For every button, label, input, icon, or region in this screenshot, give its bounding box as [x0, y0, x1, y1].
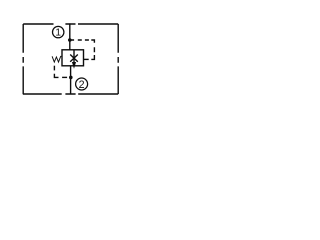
- background: [0, 0, 140, 110]
- junction node B dot: [69, 76, 73, 80]
- circled port label 1: [53, 26, 64, 37]
- svg-text:2: 2: [79, 79, 85, 91]
- port 1 line: [69, 23, 71, 50]
- valve body square: [62, 50, 84, 66]
- port 2 line: [70, 66, 72, 94]
- seat X: [70, 55, 78, 62]
- drain pilot left corner dash: [54, 74, 58, 78]
- pilot line right horizontal dashes: [71, 40, 95, 43]
- enclosure bottom edge: [23, 93, 118, 95]
- svg-text:1: 1: [55, 28, 61, 39]
- circled port label 2: [76, 78, 88, 90]
- enclosure top edge: [23, 23, 118, 25]
- spring W: [52, 56, 62, 62]
- poppet arrowhead: [72, 62, 75, 67]
- drain pilot left vertical dashes: [53, 66, 55, 71]
- junction node A dot: [68, 38, 72, 42]
- enclosure left edge: [22, 24, 24, 94]
- pilot line into valve right side: [84, 58, 89, 60]
- poppet stem: [73, 50, 75, 63]
- drain pilot left horizontal dash: [62, 76, 67, 78]
- pilot line right vertical dashes: [91, 47, 94, 59]
- enclosure right edge: [117, 24, 119, 94]
